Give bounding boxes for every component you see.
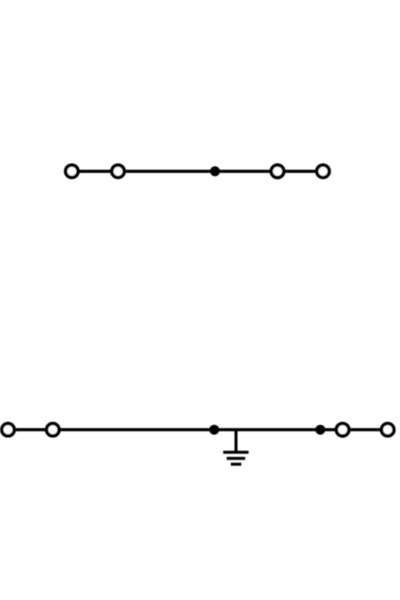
ground (earth symbol PE) xyxy=(223,452,248,464)
terminal circle T2 (upper left inner) xyxy=(112,165,125,178)
terminal circle T6 (lower left) xyxy=(47,423,60,436)
wire upper bus xyxy=(72,170,323,173)
node J1 (upper bus junction dot) xyxy=(210,166,220,176)
node J2 (lower bus junction dot left) xyxy=(209,425,219,435)
terminal circle T8 (lower right outer) xyxy=(381,423,394,436)
wire ground stem xyxy=(235,430,238,453)
wire lower bus xyxy=(8,428,388,431)
terminal circle T7 (lower right inner) xyxy=(336,423,349,436)
terminal circle T4 (upper right outer) xyxy=(317,165,330,178)
terminal circle T5 (lower far left) xyxy=(2,423,15,436)
terminal circle T1 (upper left outer) xyxy=(66,165,79,178)
terminal circle T3 (upper right inner) xyxy=(271,165,284,178)
node J3 (lower bus junction dot right) xyxy=(315,425,325,435)
